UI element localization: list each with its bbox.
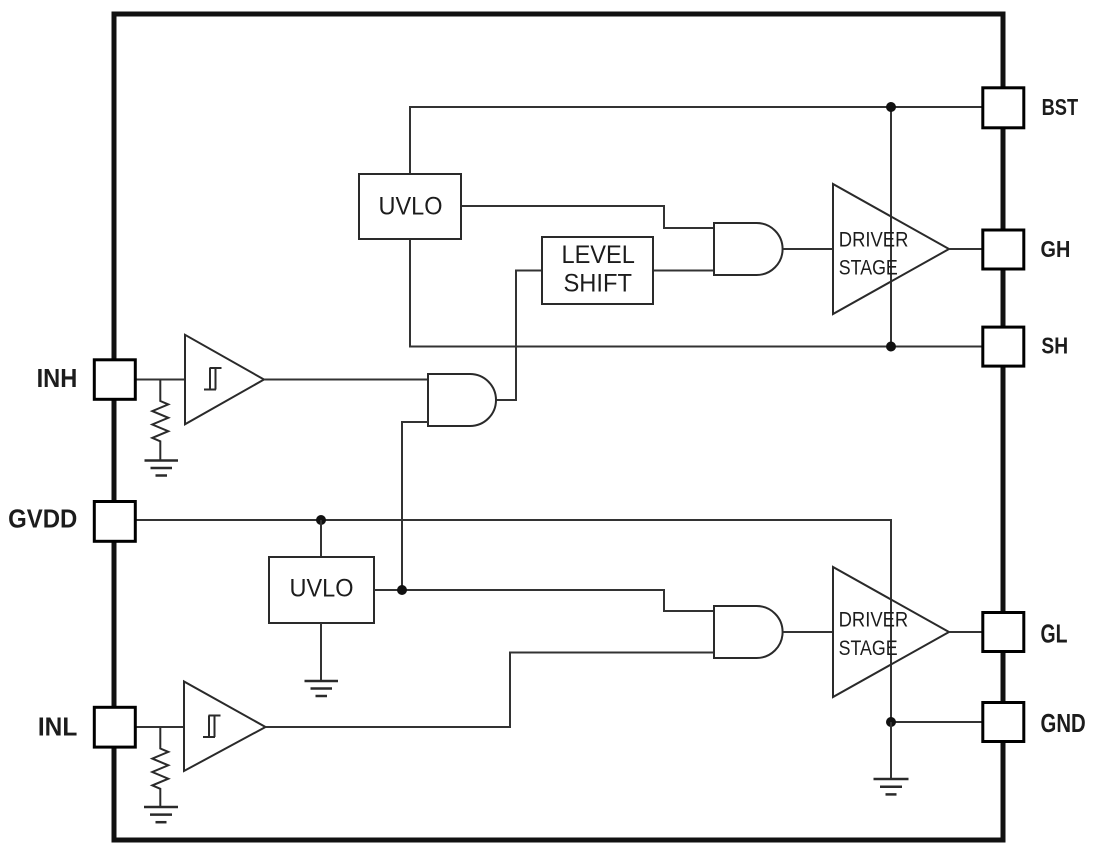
- pin GL: [983, 613, 1068, 652]
- svg-text:LEVEL: LEVEL: [561, 241, 635, 269]
- svg-text:UVLO: UVLO: [290, 575, 354, 603]
- resistor at INL: [152, 728, 168, 807]
- junction GVDD to UVLO2: [316, 515, 326, 525]
- pin GH: [983, 230, 1071, 269]
- wire driver1 output to GH pin: [949, 248, 982, 250]
- ground below UVLO2: [305, 681, 339, 696]
- svg-text:STAGE: STAGE: [839, 256, 898, 280]
- svg-text:INH: INH: [37, 363, 78, 393]
- junction GND: [886, 717, 896, 727]
- UVLO box U2: [269, 557, 374, 623]
- wire INL pin to buffer: [136, 726, 184, 728]
- wire BST net (UVLO1 top to BST pin): [410, 107, 982, 174]
- svg-text:DRIVER: DRIVER: [839, 227, 909, 251]
- junction UVLO2 output: [397, 585, 407, 595]
- wire BST to SH vertical: [890, 107, 892, 347]
- svg-text:INL: INL: [38, 712, 78, 742]
- junction on BST net: [886, 102, 896, 112]
- wire SH net (UVLO1 bottom to SH pin): [410, 239, 982, 347]
- AND gate middle: [428, 374, 496, 426]
- wire GND junction to ground symbol: [890, 722, 892, 779]
- ground at GND: [874, 779, 909, 794]
- svg-text:SH: SH: [1041, 332, 1068, 358]
- ground below INL resistor: [144, 807, 178, 822]
- driver stage top triangle: [833, 184, 949, 314]
- wire AND2 lower input from UVLO2 junction: [402, 422, 428, 590]
- wire LEVEL SHIFT output to AND1 lower input: [653, 270, 714, 272]
- svg-text:BST: BST: [1042, 94, 1079, 120]
- input buffer INH (schmitt): [185, 335, 264, 425]
- svg-text:DRIVER: DRIVER: [839, 607, 909, 631]
- wire junction to UVLO2 top: [320, 520, 322, 557]
- AND gate top: [714, 223, 783, 275]
- pin GVDD: [8, 502, 135, 542]
- pin BST: [983, 88, 1078, 128]
- input buffer INL (schmitt): [184, 682, 266, 772]
- wire AND2 output to LEVEL SHIFT input: [495, 271, 542, 401]
- pin INL: [38, 707, 135, 747]
- svg-text:GL: GL: [1041, 619, 1068, 649]
- wire AND1 output to driver1: [783, 248, 833, 250]
- wire GVDD net: [136, 520, 891, 722]
- svg-text:SHIFT: SHIFT: [563, 269, 632, 297]
- pin SH: [983, 327, 1068, 366]
- wire INH pin to buffer: [136, 379, 185, 381]
- ground below INH resistor: [145, 461, 179, 476]
- AND gate bottom: [714, 606, 783, 658]
- LEVEL SHIFT box: [542, 237, 653, 304]
- UVLO box U1: [359, 174, 461, 239]
- IC boundary border: [114, 14, 1003, 840]
- driver stage bottom triangle: [833, 567, 949, 697]
- pin INH: [37, 360, 136, 400]
- wire GND net to GND pin: [891, 721, 982, 723]
- wire UVLO1 output to AND1 upper input: [461, 206, 714, 228]
- wire UVLO2 bottom to ground: [320, 623, 322, 681]
- pin GND: [983, 703, 1086, 742]
- svg-text:GH: GH: [1041, 236, 1071, 262]
- junction on SH net: [886, 342, 896, 352]
- svg-text:UVLO: UVLO: [379, 192, 443, 220]
- wire driver2 output to GL pin: [949, 631, 982, 633]
- svg-text:STAGE: STAGE: [839, 636, 898, 660]
- svg-text:GND: GND: [1041, 708, 1086, 738]
- wire AND3 output to driver2: [783, 631, 833, 633]
- wire buffer INL output to AND3 lower input: [266, 653, 715, 728]
- wire UVLO2 output to AND3 upper input: [374, 590, 714, 611]
- svg-text:GVDD: GVDD: [8, 504, 77, 534]
- wire buffer INH output to AND2: [264, 379, 428, 381]
- resistor at INH: [152, 380, 168, 460]
